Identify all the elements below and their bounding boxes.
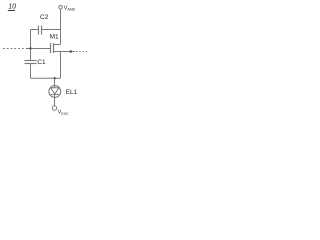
svg-text:EXC: EXC [61, 112, 69, 116]
svg-text:C1: C1 [37, 59, 46, 66]
svg-text:M1: M1 [50, 33, 59, 40]
svg-text:10: 10 [8, 3, 16, 10]
svg-text:C2: C2 [40, 14, 49, 21]
svg-text:AND: AND [67, 8, 75, 12]
svg-text:EL1: EL1 [66, 89, 78, 96]
